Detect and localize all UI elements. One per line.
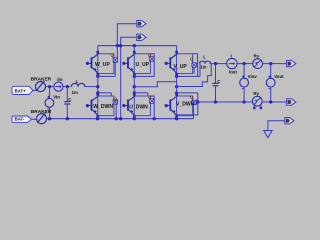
wire V_DWN gate-square drop to bus <box>193 105 195 119</box>
label C (DC link cap) <box>68 97 72 102</box>
wire coil feed drop <box>198 64 200 77</box>
ammeter Iin <box>54 82 63 91</box>
label C (output cap) <box>217 79 221 84</box>
wire W_DWN emitter to bus <box>97 116 99 119</box>
transistor Q1 W_UP <box>86 51 118 76</box>
capacitor C2 plates <box>212 83 218 85</box>
inductor L2 coil (output) <box>200 61 210 64</box>
label Vout <box>274 74 284 79</box>
label BAT+ <box>12 86 33 94</box>
capacitor C1 plates <box>64 102 70 104</box>
wire Iout to Ry <box>237 63 253 65</box>
label L (output inductor) <box>203 55 206 60</box>
svg-text:Ry: Ry <box>253 91 259 96</box>
wire top DC bus <box>98 45 177 47</box>
ground arrow <box>264 131 272 138</box>
wire V_DWN outer loop to emitter <box>177 93 198 115</box>
svg-text:Vinv: Vinv <box>248 74 258 79</box>
label BAT- <box>12 116 32 123</box>
wire U collector from bus <box>133 46 135 54</box>
svg-text:BRAKER: BRAKER <box>31 109 52 115</box>
junction dots on top bus <box>116 44 136 47</box>
inductor L1 coil <box>72 83 85 86</box>
wire Vin branch lower to bottom bus <box>49 107 51 118</box>
transistor Q4 U_DWN <box>122 93 154 118</box>
svg-text:V_DWN: V_DWN <box>176 102 195 108</box>
svg-text:Ry: Ry <box>254 54 260 59</box>
wire C1 upper lead <box>66 87 68 102</box>
wire W_UP gate-square drop <box>114 62 116 76</box>
wire U_DWN gate feed <box>134 93 148 96</box>
node W phase junctions <box>96 75 99 95</box>
svg-text:L: L <box>203 55 206 60</box>
label BRAKER (bottom) <box>31 109 52 115</box>
wire W_DWN gate-square drop to bus 2 <box>115 104 117 118</box>
voltmeter Vinv <box>240 75 249 88</box>
wire U phase step to V leg <box>134 82 176 87</box>
svg-text:BAT+: BAT+ <box>15 88 27 93</box>
svg-text:W_UP: W_UP <box>95 62 110 68</box>
svg-text:1m: 1m <box>72 90 78 95</box>
wire W collector from bus <box>97 46 99 54</box>
wire output rail B <box>198 101 287 103</box>
label Vinv <box>248 74 258 79</box>
svg-text:BAT-: BAT- <box>15 117 25 122</box>
net tag output N <box>287 99 296 105</box>
svg-text:I: I <box>231 53 232 58</box>
wire V collector from bus <box>176 46 178 54</box>
transistor Q5 V_UP <box>165 51 197 76</box>
wire V_UP gate-square drop <box>193 67 195 73</box>
wire cap C2 lower lead <box>215 86 217 102</box>
net tag N (top output tag 2) <box>137 34 146 40</box>
wire inductor to W leg <box>85 86 98 88</box>
svg-text:Vin: Vin <box>53 94 60 99</box>
wire Iin to inductor <box>63 86 70 88</box>
wire V_DWN gate feed <box>177 92 198 94</box>
wire bottom DC bus <box>46 118 193 120</box>
label Ry (series) <box>254 54 260 59</box>
ammeter Iout <box>227 58 237 68</box>
wire V phase staircase to output <box>177 64 212 87</box>
wire C1 lower lead to bottom bus <box>66 105 68 119</box>
resistor Ry shunt <box>252 96 262 106</box>
wire Vinv branch upper <box>243 64 245 79</box>
wire W leg vertical <box>97 74 99 96</box>
terminals of shunt Ry <box>253 106 262 110</box>
svg-text:Vout: Vout <box>274 74 284 79</box>
transistor Q2 W_DWN <box>86 93 118 118</box>
wire from tag N down to bottom bus <box>121 37 137 119</box>
label I (ammeter) <box>231 53 232 58</box>
wire Vin branch upper <box>49 87 51 99</box>
node output cap tap <box>214 62 217 65</box>
label L (input inductor) <box>76 79 79 84</box>
wire W_UP mid tie <box>98 46 118 77</box>
junction dots on bottom bus <box>48 117 178 120</box>
svg-text:U_UP: U_UP <box>136 62 150 68</box>
wire V_UP loop <box>177 54 198 77</box>
wire U_DWN loop to bottom bus <box>150 96 154 119</box>
svg-text:1m: 1m <box>200 65 206 70</box>
svg-text:W_DWN: W_DWN <box>93 104 113 110</box>
wire BAT- to breaker CB2 <box>32 118 37 120</box>
wire breaker to Iin ammeter <box>46 86 54 88</box>
label 1m (input inductor value) <box>72 90 78 95</box>
wire Ry to output tag <box>263 63 287 65</box>
wire Vout branch lower <box>270 87 272 102</box>
wire U_UP loop <box>134 54 154 77</box>
label BRAKER (top) <box>31 77 52 83</box>
wire W_DWN gate feed <box>98 93 112 96</box>
wire from tag P to top bus <box>117 23 137 46</box>
wire V_DWN emitter to bus <box>176 116 178 119</box>
label Iout <box>229 69 238 74</box>
node rail B start tee <box>196 100 199 103</box>
label 1m (output inductor value) <box>200 65 206 70</box>
node Vout tap on rail A <box>269 62 272 65</box>
net tag P (top output tag 1) <box>137 21 146 27</box>
wire bottom tag to ground arrow <box>268 120 285 131</box>
svg-text:Iout: Iout <box>229 69 238 74</box>
voltmeter Vout <box>266 75 275 88</box>
node V phase junctions <box>175 75 178 95</box>
svg-text:U_DWN: U_DWN <box>129 104 148 110</box>
wire Vout branch upper <box>270 64 272 79</box>
node Vinv tap on rail A <box>242 62 245 65</box>
node Vin tap junction <box>48 85 51 88</box>
transistor Q3 U_UP <box>122 51 154 76</box>
wire Vinv branch lower <box>243 87 245 102</box>
voltmeter Vin <box>45 96 54 109</box>
node rail B junctions <box>214 100 273 103</box>
wire U_DWN emitter to bus <box>133 116 135 119</box>
label Ry (shunt) <box>253 91 259 96</box>
wire BAT+ to breaker <box>33 89 38 91</box>
wire output rail A left <box>210 63 227 65</box>
wire cap C2 upper lead <box>215 64 217 84</box>
net tag bottom (gate/neutral) <box>285 118 294 124</box>
svg-text:Iin: Iin <box>57 77 63 82</box>
label Vin <box>53 94 60 99</box>
wire V leg vertical <box>176 74 178 96</box>
transistor Q6 V_DWN <box>165 93 197 118</box>
resistor Ry series <box>253 59 263 69</box>
net tag output P <box>287 60 296 66</box>
node U phase junctions <box>133 75 136 95</box>
breaker CB1 <box>36 81 46 92</box>
label Iin <box>57 77 63 82</box>
node C1 tap junction <box>66 85 69 88</box>
breaker CB2 <box>37 113 47 124</box>
wire U leg vertical <box>133 74 135 96</box>
svg-text:V_UP: V_UP <box>174 64 188 70</box>
svg-text:L: L <box>76 79 79 84</box>
